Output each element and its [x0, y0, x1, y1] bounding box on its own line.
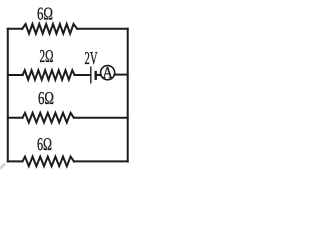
wire bottom-right segment	[74, 160, 128, 162]
resistor R1 6ohm top branch	[22, 24, 77, 34]
resistor R4 6ohm bottom branch	[23, 157, 74, 167]
wire row2 battery to ammeter	[97, 74, 101, 76]
wire left vertical	[7, 29, 9, 162]
resistor R2 2ohm branch 2	[23, 70, 75, 80]
wire row3 left segment	[8, 117, 23, 119]
wire row3 right segment	[74, 117, 128, 119]
wire row2 resistor to battery	[75, 74, 90, 76]
svg-text:6Ω: 6Ω	[37, 134, 52, 154]
wire top-right segment	[77, 28, 128, 30]
svg-text:2Ω: 2Ω	[40, 46, 54, 66]
wire right vertical	[127, 29, 129, 162]
wire row2 left segment	[8, 74, 23, 76]
resistor R3 6ohm branch 3	[23, 113, 74, 123]
scan smudge bottom-left	[1, 164, 5, 168]
svg-text:6Ω: 6Ω	[38, 88, 54, 108]
svg-text:2V: 2V	[85, 48, 98, 68]
svg-text:6Ω: 6Ω	[37, 3, 53, 23]
ammeter A1 circle	[101, 66, 115, 80]
battery V1 short plate	[94, 71, 96, 80]
battery V1 long plate	[90, 67, 92, 84]
wire bottom-left segment	[8, 160, 23, 162]
svg-text:A: A	[102, 63, 113, 82]
wire row2 ammeter to right	[114, 74, 127, 76]
wire top-left segment	[8, 28, 22, 30]
